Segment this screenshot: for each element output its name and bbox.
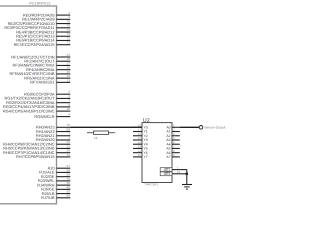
MCU pin RH1 (pin 80) [36, 127, 70, 133]
svg-text:19: 19 [177, 170, 181, 174]
svg-text:19: 19 [67, 153, 71, 157]
MCU pin RF3 (pin 17) [13, 61, 71, 67]
wire RH0 to U2 pin 18 [70, 126, 142, 128]
U2 pin 6 (A4) right [166, 140, 179, 146]
MCU pin RE1 (pin 3) [22, 15, 70, 21]
U2 pin 4 (A2) right [166, 132, 179, 138]
U2 pin 2 (A0) right [166, 123, 179, 129]
svg-text:RE7/ECCP2/P2A/AD15: RE7/ECCP2/P2A/AD15 [14, 42, 55, 47]
svg-text:1k: 1k [94, 136, 98, 140]
MCU pin RH0 (pin 79) [36, 123, 70, 129]
MCU pin RJ2 (pin 69) [41, 173, 70, 179]
MCU pin RE6 (pin 72) [16, 36, 70, 42]
U2 pin 8 (A6) right [166, 149, 179, 155]
U2 pin 18 (Y0) left [133, 123, 148, 129]
MCU pin RF4 (pin 16) [26, 66, 70, 72]
svg-text:71: 71 [67, 41, 71, 45]
U2 pin 19 (OE2) enable [160, 170, 187, 176]
U2 pin 5 (A3) right [166, 136, 179, 142]
U2 pin 13 (Y5) left [133, 145, 148, 151]
svg-text:10: 10 [67, 107, 71, 111]
svg-text:Sensor Output: Sensor Output [204, 126, 225, 130]
U2 pin 9 (A7) right [166, 153, 179, 159]
MCU pin RF6 (pin 14) [24, 74, 70, 80]
MCU pin RF7 (pin 13) [30, 78, 70, 84]
MCU pin RG0 (pin 5) [24, 90, 70, 96]
MCU pin RH6 (pin 20) [3, 149, 70, 155]
MCU pin RE0 (pin 4) [23, 11, 70, 17]
MCU pin RF2 (pin 18) [24, 57, 70, 63]
U2 pin 11 (Y7) left [133, 153, 148, 159]
MCU pin RE2 (pin 76) [8, 19, 71, 25]
U2 pin 1 (OE1) enable [160, 166, 187, 172]
svg-text:RJ7/UB: RJ7/UB [41, 195, 55, 200]
svg-text:74HC541: 74HC541 [144, 183, 158, 187]
U2 pin 14 (Y4) left [133, 140, 148, 146]
U2 pin 7 (A5) right [166, 145, 179, 151]
svg-text:OE2: OE2 [164, 172, 171, 176]
svg-text:RG4/CCP5/AN16/P1D/C3INC: RG4/CCP5/AN16/P1D/C3INC [3, 108, 55, 113]
svg-text:13: 13 [67, 78, 71, 82]
MCU pin RF5 (pin 15) [10, 70, 71, 76]
wire OE1/OE2 to ground, junction [186, 170, 188, 185]
MCU pin RJ1 (pin 68) [39, 168, 70, 174]
MCU pin RJ0 (pin 67) [48, 164, 71, 170]
MCU pin RJ3 (pin 70) [38, 177, 70, 183]
MCU pin RH3 (pin 2) [36, 136, 70, 142]
MCU pin RH7 (pin 19) [16, 153, 70, 159]
MCU pin RE4 (pin 74) [16, 28, 70, 34]
MCU pin RJ6 (pin 55) [42, 189, 71, 195]
MCU pin RF1 (pin 23) [11, 53, 70, 59]
svg-text:RF7/AN5/SS1: RF7/AN5/SS1 [30, 80, 54, 85]
resistor R1 1k [87, 131, 115, 134]
svg-text:PIC18F87K22: PIC18F87K22 [29, 2, 50, 6]
ground [182, 185, 192, 190]
MCU pin RG1 (pin 6) [5, 94, 71, 100]
MCU pin RE3 (pin 75) [4, 24, 70, 30]
MCU pin RG4 (pin 10) [3, 107, 70, 113]
MCU pin RJ7 (pin 56) [41, 194, 70, 200]
U2 pin 17 (Y1) left [133, 128, 148, 134]
MCU pin RG5 (pin 9) [34, 113, 70, 119]
buffer U2 74HC541 body box [142, 123, 172, 183]
MCU pin RH5 (pin 21) [3, 144, 70, 150]
MCU pin RJ5 (pin 40) [41, 185, 70, 191]
svg-text:A7: A7 [166, 155, 170, 159]
svg-text:11: 11 [138, 153, 141, 157]
svg-text:RH7/CCP6/P1B/AN15: RH7/CCP6/P1B/AN15 [16, 154, 55, 159]
U2 pin 12 (Y6) left [133, 149, 148, 155]
svg-text:Y7: Y7 [144, 155, 148, 159]
svg-text:RG5/MCLR: RG5/MCLR [34, 114, 54, 119]
MCU pin RH4 (pin 22) [3, 140, 70, 146]
U2 pin 16 (Y2) left [133, 132, 148, 138]
MCU pin RE7 (pin 71) [14, 41, 71, 47]
node Sensor Output terminal [199, 126, 203, 130]
U2 pin 3 (A1) right [166, 128, 179, 134]
MCU pin RG3 (pin 8) [3, 103, 70, 109]
svg-text:9: 9 [68, 113, 70, 117]
MCU U1 (PIC18F87K22) body box [0, 6, 57, 204]
svg-text:56: 56 [67, 194, 71, 198]
MCU pin RE5 (pin 73) [16, 32, 70, 38]
wire U2 pin 2 to output terminal [180, 126, 199, 128]
MCU pin RJ4 (pin 39) [37, 181, 70, 187]
U2 pin 15 (Y3) left [133, 136, 148, 142]
MCU pin RG2 (pin 7) [6, 99, 70, 105]
MCU pin RH2 (pin 1) [36, 132, 70, 138]
